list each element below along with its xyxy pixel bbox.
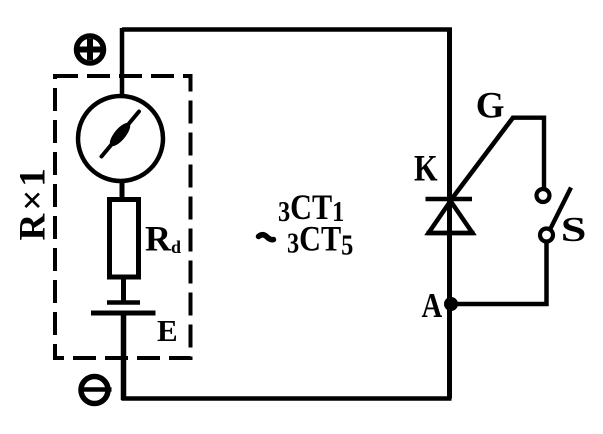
wire resistor to battery	[121, 277, 126, 301]
minus terminal	[81, 377, 112, 404]
plus terminal	[77, 36, 104, 63]
switch blade	[550, 188, 572, 231]
svg-text:R×1: R×1	[13, 165, 54, 240]
svg-text:E: E	[157, 313, 178, 348]
wire battery to bottom	[121, 313, 127, 400]
node A junction dot	[444, 297, 458, 311]
thyristor base line extension	[427, 231, 475, 236]
resistor Rd	[110, 200, 139, 278]
wire left vertical from top wire to meter	[120, 28, 125, 97]
svg-text:A: A	[422, 285, 443, 324]
wire top horizontal	[122, 27, 452, 32]
svg-text:S: S	[561, 209, 587, 248]
wire bottom horizontal	[122, 396, 452, 401]
tilde between lines	[259, 235, 274, 240]
svg-text:G: G	[476, 86, 505, 127]
meter M	[78, 96, 163, 181]
battery E	[91, 303, 156, 314]
wire A horizontal	[451, 302, 549, 307]
thyristor V: triangle	[429, 201, 473, 233]
switch S bottom contact	[540, 229, 553, 242]
wire meter to resistor	[120, 182, 125, 201]
wire switch down to A wire	[544, 242, 549, 306]
wire right vertical (K lead through thyristor to bottom)	[447, 28, 452, 399]
switch S top contact	[537, 189, 550, 202]
gate wire diagonal	[451, 117, 514, 200]
thyristor V: cathode bar	[426, 197, 473, 202]
dashed box (ohmmeter)	[55, 76, 191, 358]
gate wire horizontal + down to switch	[512, 118, 545, 188]
svg-text:Rd: Rd	[145, 219, 181, 259]
svg-text:K: K	[414, 149, 438, 189]
